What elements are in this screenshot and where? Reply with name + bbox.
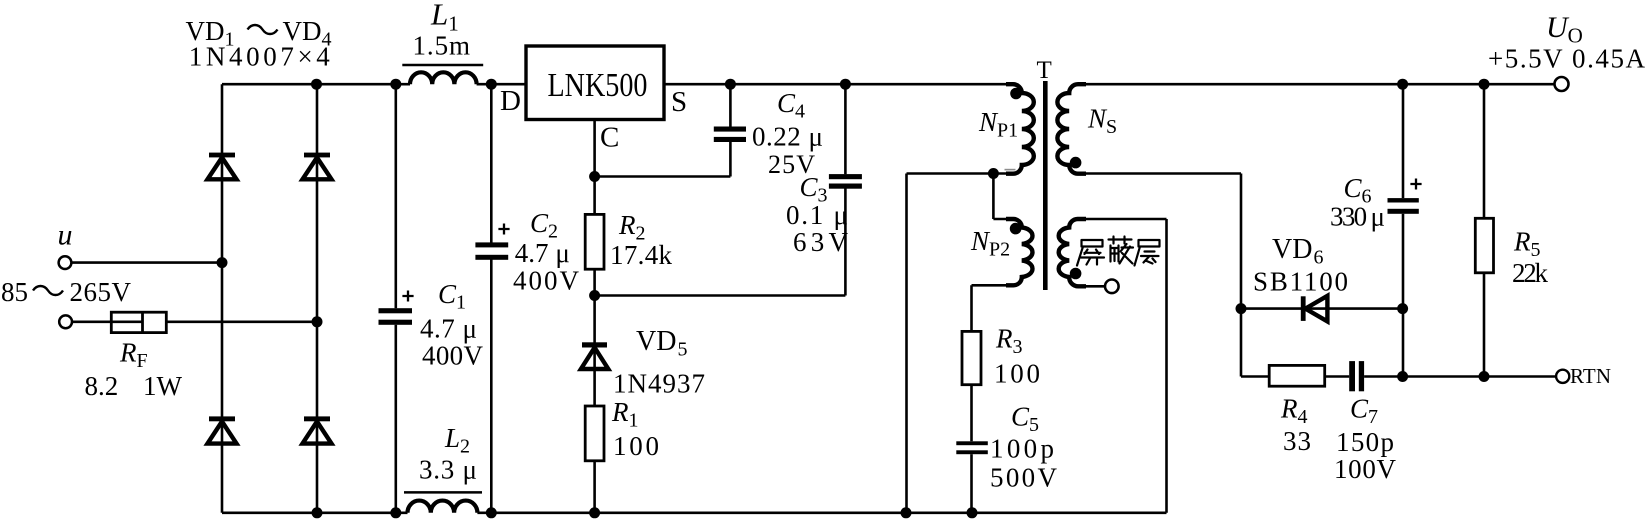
polarity dot NP2 (1010, 223, 1022, 235)
capacitor C3 (829, 174, 862, 189)
transformer winding NP1 (1006, 84, 1034, 174)
terminal output RTN (1556, 370, 1569, 383)
wire C6 lower lead (1402, 214, 1405, 377)
transformer winding NS (1057, 84, 1086, 174)
value input 85-265V (1, 277, 132, 307)
wire R3 column upper (970, 285, 973, 441)
resistor R4 (1269, 365, 1325, 386)
wire NP1 bottom tick mark (1005, 169, 1016, 171)
transformer shield winding (1059, 219, 1086, 286)
node C2 top (486, 79, 497, 90)
wire C3 upper lead (844, 84, 847, 174)
svg-text:22k: 22k (1512, 258, 1549, 288)
capacitor C5 (956, 441, 988, 454)
wire bottom rail right (477, 511, 1166, 514)
transformer T core (1043, 81, 1048, 290)
node bottom rail bridge (312, 507, 323, 518)
capacitor C4 (714, 127, 746, 143)
wire shield bottom lead (1078, 285, 1105, 288)
wire NP2 bottom lead (972, 284, 1014, 287)
wire top rail left (222, 83, 410, 86)
wire fuse to bridge (166, 320, 317, 323)
svg-text:500V: 500V (990, 463, 1058, 493)
capacitor C1 (379, 291, 414, 325)
wire bottom rail left (222, 511, 408, 514)
wire NS top to output (1078, 83, 1555, 86)
node C1 top (390, 79, 401, 90)
svg-text:4.7 μ: 4.7 μ (515, 238, 570, 268)
terminal input neutral (59, 315, 72, 328)
node C pin tap (589, 171, 600, 182)
node C4 top (725, 79, 736, 90)
node VD6 anode junction (1236, 303, 1247, 314)
svg-text:63V: 63V (793, 227, 849, 257)
svg-text:1N4937: 1N4937 (613, 369, 705, 399)
wire VD6 row (1241, 307, 1403, 310)
wire NS right drop (1240, 174, 1243, 377)
svg-text:C: C (600, 122, 619, 154)
value RF 8.2 1W (85, 371, 183, 401)
node bottom rail C5 (967, 507, 978, 518)
svg-text:400V: 400V (513, 266, 580, 296)
wire C4 lower lead (729, 142, 732, 177)
svg-text:100V: 100V (1334, 454, 1397, 484)
node input u junction (217, 257, 228, 268)
wire bridge left column (221, 84, 224, 513)
node bottom rail R1 (589, 507, 600, 518)
label VD1-VD4 designators (186, 16, 332, 51)
wire RTN row to R4 (1241, 375, 1269, 378)
node C6 top (1397, 79, 1408, 90)
svg-text:LNK500: LNK500 (548, 67, 648, 104)
wire NP1 bottom lead (907, 172, 1014, 175)
svg-text:100: 100 (613, 431, 659, 461)
inductor L2 (404, 492, 482, 512)
terminal output UO (1555, 77, 1569, 91)
node VD6 cathode junction (1397, 303, 1408, 314)
wire R5 column (1483, 84, 1486, 376)
svg-text:150p: 150p (1336, 427, 1394, 457)
svg-text:1W: 1W (143, 371, 183, 401)
diode VD3 (208, 416, 237, 443)
resistor R2 (585, 214, 604, 269)
wire NS bottom lead (1078, 172, 1241, 175)
IC U1 LNK500 (526, 46, 664, 120)
svg-text:RTN: RTN (1570, 364, 1611, 388)
wire C3 tap to R2 node (595, 294, 846, 297)
wire primary return drop (905, 174, 908, 513)
wire shield drop to bottom rail (1165, 219, 1168, 513)
node R5 bottom (1479, 371, 1490, 382)
wire C pin tap to C4 (595, 175, 731, 178)
svg-text:330 μ: 330 μ (1330, 202, 1385, 232)
diode VD2 (303, 153, 332, 180)
polarity dot NS (1070, 157, 1082, 169)
diode VD4 (303, 416, 332, 443)
svg-text:265V: 265V (70, 277, 132, 307)
capacitor C6 (1388, 179, 1422, 214)
inductor L1 (402, 65, 483, 84)
wire C6 upper lead (1402, 84, 1405, 198)
wire R4 to C7 (1325, 375, 1350, 378)
fuse resistor RF (111, 312, 166, 332)
svg-text:u: u (58, 219, 73, 252)
svg-text:0.22 μ: 0.22 μ (752, 122, 823, 152)
diode VD1 (208, 153, 237, 180)
svg-text:400V: 400V (422, 341, 484, 371)
svg-text:100: 100 (994, 359, 1040, 389)
svg-text:+5.5V 0.45A: +5.5V 0.45A (1488, 44, 1646, 74)
wire C1 column lower (394, 325, 397, 513)
svg-text:S: S (671, 86, 687, 118)
svg-text:33: 33 (1283, 426, 1311, 456)
wire input u lead (72, 261, 223, 264)
diode VD6 (1301, 296, 1328, 322)
wire top rail LNK500 S to NP1 (664, 83, 1014, 86)
svg-text:8.2: 8.2 (85, 371, 119, 401)
svg-text:SB1100: SB1100 (1253, 267, 1348, 297)
wire bridge right column (316, 84, 319, 513)
wire C3 lower lead (844, 189, 847, 296)
wire C pin column (593, 120, 596, 513)
svg-text:4.7 μ: 4.7 μ (420, 314, 477, 344)
wire C7 to RTN terminal (1364, 375, 1556, 378)
node R5 top (1479, 79, 1490, 90)
svg-text:D: D (500, 85, 521, 117)
wire shield top lead (1078, 218, 1167, 221)
node C3 top (840, 79, 851, 90)
svg-text:85: 85 (1, 277, 28, 307)
wire top rail L1 to LNK500 (477, 83, 526, 86)
wire input lead to fuse (72, 320, 111, 323)
node bottom rail C2 (486, 507, 497, 518)
polarity dot NP1 (1010, 88, 1022, 100)
resistor R3 (962, 331, 981, 384)
capacitor C2 (475, 224, 509, 260)
resistor R5 (1475, 218, 1493, 272)
node bottom rail primary return (901, 507, 912, 518)
svg-text:T: T (1037, 57, 1052, 84)
svg-text:17.4k: 17.4k (610, 240, 673, 270)
wire NP2 feed horizontal (993, 218, 1013, 221)
svg-text:0.1 μ: 0.1 μ (786, 200, 848, 230)
wire C2 column lower (490, 259, 493, 512)
node bottom rail C1 (390, 507, 401, 518)
wire C1 column upper (394, 84, 397, 308)
terminal shield open (1105, 280, 1119, 294)
node fuse junction (312, 316, 323, 327)
wire C2 column upper (490, 84, 493, 242)
node R2 bottom tap (589, 290, 600, 301)
polarity dot shield (1070, 268, 1082, 280)
label shield layer hanzi (1077, 237, 1160, 266)
transformer winding NP2 (1006, 219, 1032, 285)
svg-text:3.3 μ: 3.3 μ (419, 455, 477, 485)
node C6 bottom (1397, 371, 1408, 382)
svg-text:1N4007×4: 1N4007×4 (189, 42, 330, 72)
resistor R1 (585, 406, 604, 461)
wire C5 lower lead (970, 454, 973, 513)
diode VD5 (581, 342, 608, 369)
node bridge top junction (311, 79, 322, 90)
terminal input u (59, 256, 72, 269)
wire C4 upper lead (729, 84, 732, 126)
svg-text:1.5m: 1.5m (413, 31, 471, 61)
node NP1 bottom junction (988, 168, 999, 179)
capacitor C7 (1349, 361, 1364, 391)
wire NP2 feed vertical (992, 174, 995, 220)
